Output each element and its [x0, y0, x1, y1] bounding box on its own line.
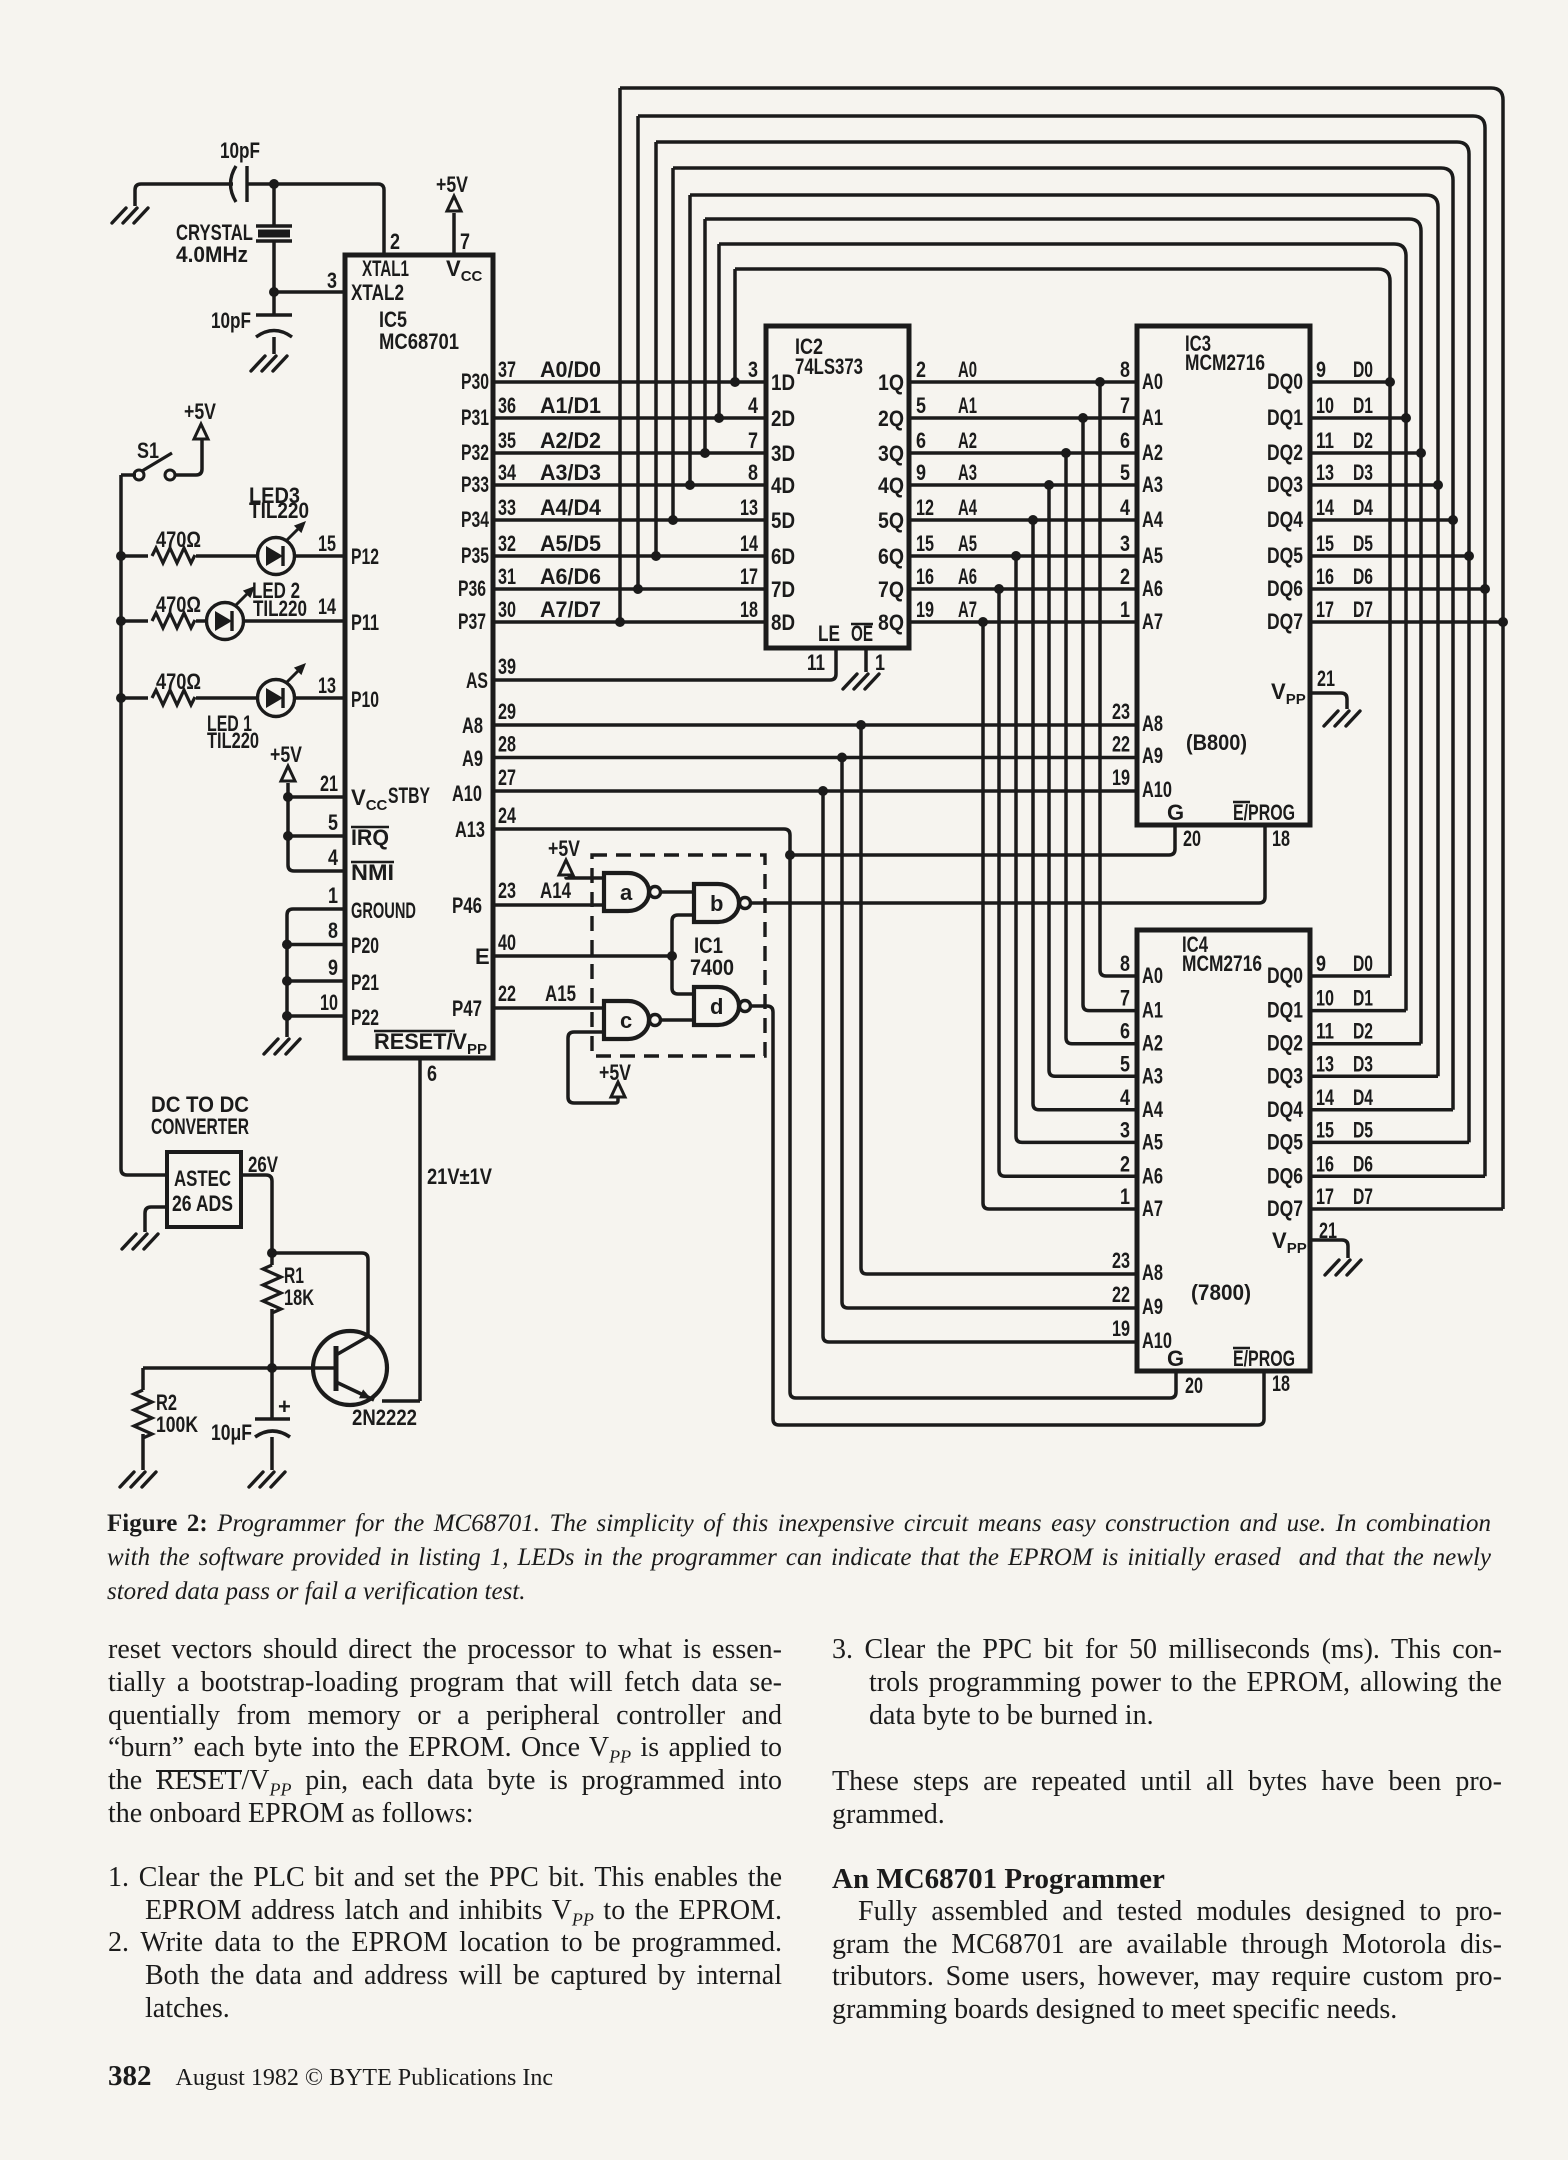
svg-text:1: 1 — [328, 883, 338, 908]
wire IC3 DQ4 to D bus — [1310, 518, 1453, 522]
svg-text:5Q: 5Q — [878, 508, 904, 533]
wire to pin21 VCC STBY — [288, 795, 345, 799]
svg-text:3: 3 — [327, 268, 337, 293]
wire R5 to LED1 — [196, 696, 259, 700]
svg-text:D4: D4 — [1353, 495, 1374, 520]
svg-text:2: 2 — [390, 229, 400, 254]
wire G branch to IC3 pin20 — [790, 825, 1175, 855]
junction rail/R4 — [116, 616, 126, 626]
wire base node to C3 — [270, 1368, 274, 1419]
wire IC3 DQ0 to D bus — [1310, 380, 1390, 384]
wire R4 to LED2 — [196, 619, 208, 623]
svg-text:7: 7 — [460, 229, 470, 254]
wire A6 drop to IC4 — [999, 589, 1137, 1176]
wire junction to R1 — [270, 1253, 274, 1265]
svg-text:5: 5 — [1120, 460, 1130, 485]
svg-text:4: 4 — [1120, 1085, 1131, 1110]
junction D5 riser — [651, 551, 661, 561]
junction D1 riser — [714, 413, 724, 423]
svg-text:P11: P11 — [351, 610, 379, 635]
wire D3 bus drop to IC4 — [1436, 485, 1440, 1076]
svg-text:DQ3: DQ3 — [1267, 472, 1303, 497]
svg-text:D4: D4 — [1353, 1085, 1374, 1110]
wire S1 to left rail — [121, 473, 136, 477]
svg-text:15: 15 — [1316, 531, 1334, 556]
svg-text:GROUND: GROUND — [351, 898, 416, 923]
svg-text:74LS373: 74LS373 — [795, 354, 863, 379]
wire D1 nest wrap — [719, 244, 1406, 418]
svg-text:A8: A8 — [1142, 1260, 1163, 1285]
junction base node — [267, 1363, 277, 1373]
svg-text:14: 14 — [740, 531, 759, 556]
svg-text:15: 15 — [916, 531, 934, 556]
wire A7 drop to IC4 — [983, 622, 1137, 1209]
svg-text:AS: AS — [466, 668, 488, 693]
wire gate c lower input to +5V — [568, 1032, 618, 1103]
wire A2 bus 3Q to IC3 — [909, 451, 1137, 455]
svg-text:3: 3 — [1120, 1117, 1130, 1142]
wire D7 riser to top nest — [618, 88, 622, 622]
svg-text:MC68701: MC68701 — [379, 329, 459, 354]
svg-text:MCM2716: MCM2716 — [1182, 951, 1262, 976]
wire D1 riser to top nest — [717, 244, 721, 418]
junction D4 at IC3 DQ4 — [1448, 515, 1458, 525]
svg-text:23: 23 — [498, 878, 516, 903]
IC4 labels — [1142, 932, 1307, 1371]
svg-text:A15: A15 — [545, 981, 576, 1006]
svg-text:A2: A2 — [1142, 1031, 1163, 1056]
svg-text:4D: 4D — [771, 473, 795, 498]
svg-text:P31: P31 — [461, 405, 489, 430]
wire D5 bus drop to IC4 — [1467, 556, 1471, 1142]
svg-text:3D: 3D — [771, 441, 795, 466]
svg-text:7: 7 — [1120, 986, 1130, 1011]
svg-text:XTAL2: XTAL2 — [351, 280, 404, 305]
svg-text:P37: P37 — [458, 609, 486, 634]
svg-text:9: 9 — [328, 955, 338, 980]
svg-text:7Q: 7Q — [878, 577, 904, 602]
wire R1 to base node — [270, 1309, 274, 1368]
svg-text:28: 28 — [498, 732, 516, 757]
svg-text:A6: A6 — [958, 564, 977, 589]
svg-text:DQ0: DQ0 — [1267, 369, 1303, 394]
svg-text:P36: P36 — [458, 576, 486, 601]
svg-text:2: 2 — [1120, 1151, 1130, 1176]
svg-text:12: 12 — [916, 495, 934, 520]
wire D2 nest wrap — [705, 219, 1421, 453]
svg-text:24: 24 — [498, 803, 517, 828]
svg-text:A4: A4 — [1142, 507, 1164, 532]
svg-text:5: 5 — [916, 393, 926, 418]
svg-text:a: a — [620, 880, 633, 905]
junction A0 drop — [1095, 377, 1105, 387]
wire gate d out to IC4 E/PROG — [751, 1006, 1264, 1425]
junction D6 at IC3 DQ6 — [1480, 584, 1490, 594]
wire A9 IC5 to IC3 — [493, 756, 1137, 760]
svg-text:+5V: +5V — [599, 1060, 631, 1085]
wire C1 left to ground — [135, 184, 233, 206]
wire P34 data bus to 5D — [493, 518, 766, 522]
svg-text:18: 18 — [1272, 1371, 1290, 1396]
power +5V at S1 — [184, 399, 216, 439]
svg-text:23: 23 — [1112, 699, 1130, 724]
wire base node to Q1 base — [143, 1366, 336, 1370]
wire IC4 DQ0 to D bus — [1310, 974, 1390, 978]
svg-text:21V±1V: 21V±1V — [427, 1164, 492, 1189]
wire P32 data bus to 3D — [493, 451, 766, 455]
svg-text:8: 8 — [748, 460, 758, 485]
svg-text:4.0MHz: 4.0MHz — [176, 242, 248, 267]
junction E node — [667, 951, 677, 961]
wire IC3 DQ6 to D bus — [1310, 587, 1485, 591]
svg-text:21: 21 — [320, 771, 338, 796]
DC-DC converter ASTEC 26 ADS box — [167, 1152, 241, 1227]
svg-text:VCC: VCC — [446, 256, 483, 285]
wire D1 bus drop to IC4 — [1404, 418, 1408, 1011]
svg-text:A9: A9 — [1142, 743, 1163, 768]
svg-text:5D: 5D — [771, 508, 795, 533]
svg-text:14: 14 — [1316, 495, 1335, 520]
svg-text:TIL220: TIL220 — [253, 596, 307, 621]
svg-text:A1/D1: A1/D1 — [540, 393, 601, 418]
svg-text:D5: D5 — [1353, 531, 1373, 556]
wire P30 data bus to 1D — [493, 380, 766, 384]
svg-text:10: 10 — [320, 990, 338, 1015]
junction D7 at IC3 DQ7 — [1498, 617, 1508, 627]
svg-text:+5V: +5V — [184, 399, 216, 424]
svg-text:14: 14 — [318, 594, 337, 619]
wire P35 data bus to 6D — [493, 554, 766, 558]
svg-text:16: 16 — [1316, 1151, 1334, 1176]
node B junction — [269, 287, 279, 297]
wire node B to C2 — [272, 292, 276, 315]
svg-text:D2: D2 — [1353, 1019, 1373, 1044]
ground at C3 — [249, 1472, 285, 1487]
svg-text:3Q: 3Q — [878, 441, 904, 466]
svg-text:A6/D6: A6/D6 — [540, 564, 601, 589]
svg-text:1Q: 1Q — [878, 370, 904, 395]
junction A3 drop — [1044, 480, 1054, 490]
svg-text:DQ7: DQ7 — [1267, 609, 1303, 634]
svg-text:D0: D0 — [1353, 951, 1373, 976]
svg-text:D2: D2 — [1353, 428, 1373, 453]
wire +5V to pin7 VCC — [452, 213, 456, 255]
power +5V at gate c — [599, 1060, 631, 1097]
svg-text:7400: 7400 — [690, 955, 734, 980]
junction A9 branch — [837, 753, 847, 763]
wire LED1 to pin13 P10 — [294, 696, 345, 700]
svg-text:NMI: NMI — [351, 860, 394, 885]
junction P22 — [282, 1011, 292, 1021]
junction A8 branch — [856, 720, 866, 730]
svg-text:26 ADS: 26 ADS — [172, 1191, 233, 1216]
svg-text:3: 3 — [1120, 531, 1130, 556]
LED1 TIL220 — [207, 663, 306, 753]
svg-text:10pF: 10pF — [220, 138, 260, 163]
wire IC3 DQ7 to D bus — [1310, 620, 1503, 624]
svg-text:11: 11 — [1316, 428, 1334, 453]
junction D0 riser — [730, 377, 740, 387]
ground at P22 rail — [264, 1039, 300, 1054]
svg-text:A8: A8 — [1142, 711, 1163, 736]
svg-text:A10: A10 — [1142, 777, 1172, 802]
IC5 left/inner labels — [351, 256, 487, 1058]
svg-text:b: b — [710, 891, 723, 916]
svg-text:1: 1 — [875, 650, 885, 675]
svg-text:VCC: VCC — [351, 785, 388, 814]
nand gate c — [604, 1001, 661, 1039]
wire node A to pin2 XTAL1 — [274, 184, 384, 255]
junction G branch — [785, 850, 795, 860]
svg-text:A13: A13 — [455, 817, 485, 842]
wire D6 nest wrap — [638, 116, 1485, 589]
svg-text:A7: A7 — [1142, 1196, 1163, 1221]
svg-text:36: 36 — [498, 393, 516, 418]
svg-text:A1: A1 — [1142, 405, 1163, 430]
svg-text:D6: D6 — [1353, 564, 1373, 589]
wire rail to R4 — [121, 619, 148, 623]
wire C1 right to node A — [247, 182, 274, 186]
svg-text:+5V: +5V — [436, 172, 468, 197]
IC2 labels — [795, 334, 873, 646]
svg-text:A3: A3 — [1142, 1063, 1163, 1088]
wire +5V to S1 — [174, 439, 202, 475]
svg-text:A1: A1 — [958, 393, 977, 418]
svg-text:P33: P33 — [461, 472, 489, 497]
wire C3 to ground — [270, 1437, 274, 1470]
svg-text:D3: D3 — [1353, 460, 1373, 485]
junction A1 drop — [1078, 413, 1088, 423]
junction D2 riser — [700, 448, 710, 458]
svg-text:19: 19 — [1112, 1316, 1130, 1341]
svg-text:A2/D2: A2/D2 — [540, 428, 601, 453]
svg-text:4: 4 — [1120, 495, 1131, 520]
wire ASTEC gnd pin — [145, 1207, 167, 1232]
wire D0 riser to top nest — [733, 269, 737, 382]
svg-text:DQ4: DQ4 — [1267, 507, 1304, 532]
svg-text:A2: A2 — [1142, 440, 1163, 465]
svg-text:A8: A8 — [462, 713, 483, 738]
svg-text:VPP: VPP — [1271, 679, 1306, 708]
svg-text:6: 6 — [1120, 1019, 1130, 1044]
resistor R4 470ohm — [152, 613, 195, 628]
junction A2 drop — [1061, 448, 1071, 458]
svg-text:2D: 2D — [771, 406, 795, 431]
svg-text:2: 2 — [1120, 564, 1130, 589]
svg-text:20: 20 — [1185, 1373, 1203, 1398]
svg-text:P34: P34 — [461, 507, 490, 532]
LED2 TIL220 — [207, 578, 308, 640]
svg-text:8: 8 — [1120, 951, 1130, 976]
wire A5 drop to IC4 — [1016, 556, 1137, 1142]
wire D4 riser to top nest — [671, 168, 675, 520]
wire C2 to ground — [272, 337, 276, 354]
svg-text:TIL220: TIL220 — [207, 728, 259, 753]
wire IC3 DQ2 to D bus — [1310, 451, 1421, 455]
wire to pin9 P21 — [287, 979, 345, 983]
wire gate a out to gate b — [660, 890, 694, 894]
svg-text:DQ5: DQ5 — [1267, 543, 1303, 568]
wire base node to R2 — [141, 1368, 145, 1390]
svg-text:DQ5: DQ5 — [1267, 1129, 1303, 1154]
svg-text:A10: A10 — [452, 781, 482, 806]
svg-text:D3: D3 — [1353, 1051, 1373, 1076]
svg-text:P35: P35 — [461, 543, 489, 568]
svg-text:11: 11 — [1316, 1019, 1334, 1044]
resistor R1 18K — [263, 1265, 281, 1313]
svg-text:STBY: STBY — [388, 783, 430, 808]
svg-text:29: 29 — [498, 699, 516, 724]
wire A13 to G nets — [493, 829, 1176, 1398]
svg-text:32: 32 — [498, 531, 516, 556]
svg-text:DQ1: DQ1 — [1267, 405, 1303, 430]
svg-text:A9: A9 — [1142, 1294, 1163, 1319]
svg-text:A14: A14 — [540, 878, 572, 903]
svg-text:39: 39 — [498, 654, 516, 679]
svg-text:A5/D5: A5/D5 — [540, 531, 601, 556]
svg-text:DQ3: DQ3 — [1267, 1063, 1303, 1088]
wire A1 drop to IC4 — [1083, 418, 1137, 1011]
svg-text:P10: P10 — [351, 687, 379, 712]
wire D0 bus drop to IC4 — [1388, 382, 1392, 976]
svg-text:+: + — [278, 1394, 291, 1419]
svg-text:LE: LE — [818, 621, 840, 646]
wire IC4 DQ4 to D bus — [1310, 1108, 1453, 1112]
svg-text:A5: A5 — [1142, 1129, 1163, 1154]
junction A6 drop — [994, 584, 1004, 594]
svg-text:27: 27 — [498, 765, 516, 790]
svg-text:5: 5 — [328, 810, 338, 835]
junction A5 drop — [1011, 551, 1021, 561]
svg-text:9: 9 — [1316, 951, 1326, 976]
capacitor C3 10uF — [211, 1394, 291, 1445]
svg-text:16: 16 — [1316, 564, 1334, 589]
nand gate b — [694, 884, 751, 922]
wire A7 bus 8Q to IC3 — [909, 620, 1137, 624]
svg-text:A0/D0: A0/D0 — [540, 357, 601, 382]
wire A4 bus 5Q to IC3 — [909, 518, 1137, 522]
junction R1 top — [267, 1248, 277, 1258]
svg-text:TIL220: TIL220 — [249, 498, 309, 523]
svg-text:1D: 1D — [771, 370, 795, 395]
svg-text:4: 4 — [328, 845, 339, 870]
wire A3 bus 4Q to IC3 — [909, 483, 1137, 487]
wire AS to LE pin11 — [493, 648, 836, 680]
wire D4 bus drop to IC4 — [1451, 520, 1455, 1110]
wire P46/A14 to gate a — [493, 903, 604, 907]
wire P47/A15 to gate c — [493, 1006, 604, 1010]
capacitor C1 — [231, 166, 248, 202]
svg-text:33: 33 — [498, 495, 516, 520]
resistor R5 470ohm — [152, 690, 195, 705]
junction A4 drop — [1028, 515, 1038, 525]
svg-text:35: 35 — [498, 428, 516, 453]
svg-text:DQ1: DQ1 — [1267, 998, 1303, 1023]
svg-text:20: 20 — [1183, 826, 1201, 851]
svg-text:P32: P32 — [461, 440, 489, 465]
svg-text:A0: A0 — [958, 357, 977, 382]
svg-text:18: 18 — [1272, 826, 1290, 851]
svg-text:A3: A3 — [958, 460, 977, 485]
junction D7 riser — [615, 617, 625, 627]
wire A1 bus 2Q to IC3 — [909, 416, 1137, 420]
wire D5 riser to top nest — [654, 142, 658, 556]
svg-text:A3: A3 — [1142, 472, 1163, 497]
wire IC4 DQ2 to D bus — [1310, 1042, 1421, 1046]
svg-text:(7800): (7800) — [1191, 1280, 1251, 1305]
wire A2 drop to IC4 — [1066, 453, 1137, 1044]
wire A8 IC5 to IC3 — [493, 723, 1137, 727]
wire RESET/Vpp pin6 from IC5 — [418, 1058, 422, 1401]
svg-text:6: 6 — [427, 1061, 437, 1086]
svg-text:DQ7: DQ7 — [1267, 1196, 1303, 1221]
IC2 74LS373 latch box — [766, 326, 909, 648]
svg-text:+5V: +5V — [548, 836, 580, 861]
junction D0 at IC3 DQ0 — [1385, 377, 1395, 387]
svg-text:A9: A9 — [462, 746, 483, 771]
svg-text:DQ0: DQ0 — [1267, 963, 1303, 988]
junction VCC STBY — [283, 792, 293, 802]
svg-text:ASTEC: ASTEC — [174, 1166, 231, 1191]
wire D3 nest wrap — [690, 195, 1438, 485]
wire A0 bus 1Q to IC3 — [909, 380, 1137, 384]
svg-text:A4: A4 — [1142, 1097, 1164, 1122]
wire rail to R5 — [121, 696, 148, 700]
transistor Q1 2N2222 — [313, 1331, 417, 1430]
svg-text:P47: P47 — [452, 996, 482, 1021]
svg-text:D1: D1 — [1353, 393, 1373, 418]
svg-text:E/PROG: E/PROG — [1233, 800, 1295, 825]
ground at R2 — [120, 1472, 156, 1487]
svg-text:XTAL1: XTAL1 — [362, 256, 409, 281]
svg-text:10pF: 10pF — [211, 308, 251, 333]
ground at C2 — [251, 356, 287, 371]
svg-text:34: 34 — [498, 460, 517, 485]
svg-text:P21: P21 — [351, 970, 379, 995]
ground at OE — [843, 674, 879, 689]
svg-text:8Q: 8Q — [878, 610, 904, 635]
svg-text:IRQ: IRQ — [351, 825, 389, 850]
svg-text:10: 10 — [1316, 986, 1334, 1011]
wire P36 data bus to 7D — [493, 587, 766, 591]
svg-text:18K: 18K — [284, 1285, 314, 1310]
svg-text:7D: 7D — [771, 577, 795, 602]
svg-text:A4: A4 — [958, 495, 978, 520]
svg-text:G: G — [1167, 800, 1184, 825]
resistor R2 100K — [134, 1390, 152, 1438]
node A junction — [269, 179, 279, 189]
svg-text:17: 17 — [1316, 597, 1334, 622]
svg-text:4: 4 — [748, 393, 759, 418]
wire D3 riser to top nest — [688, 195, 692, 485]
wire A5 bus 6Q to IC3 — [909, 554, 1137, 558]
svg-text:22: 22 — [1112, 732, 1130, 757]
svg-text:D1: D1 — [1353, 986, 1373, 1011]
wire IC3 Vpp to ground — [1310, 693, 1347, 709]
svg-text:MCM2716: MCM2716 — [1185, 350, 1265, 375]
left +5V rail — [121, 475, 167, 1175]
svg-text:13: 13 — [1316, 1051, 1334, 1076]
resistor R3 470ohm — [152, 548, 195, 563]
wire node B to pin3 XTAL2 — [274, 290, 345, 294]
svg-text:D7: D7 — [1353, 597, 1373, 622]
svg-text:13: 13 — [1316, 460, 1334, 485]
svg-text:c: c — [620, 1008, 632, 1033]
IC1 7400 dashed outline — [592, 855, 765, 1056]
wire +5V rail to NMI — [288, 783, 345, 871]
svg-text:A0: A0 — [1142, 369, 1163, 394]
junction IRQ — [283, 831, 293, 841]
